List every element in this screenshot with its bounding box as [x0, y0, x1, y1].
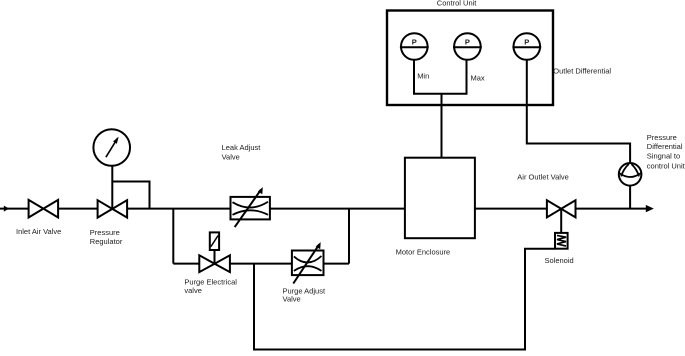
svg-text:Inlet Air Valve: Inlet Air Valve	[16, 227, 61, 236]
svg-text:Control Unit: Control Unit	[437, 0, 478, 7]
svg-text:Air Outlet Valve: Air Outlet Valve	[517, 173, 569, 182]
svg-text:Leak Adjust: Leak Adjust	[222, 143, 262, 152]
svg-text:Valve: Valve	[222, 152, 240, 161]
svg-text:Regulator: Regulator	[90, 237, 123, 246]
svg-text:Differential: Differential	[647, 142, 683, 151]
svg-text:P: P	[524, 38, 529, 47]
svg-text:Pressure: Pressure	[90, 228, 120, 237]
svg-text:Max: Max	[471, 73, 485, 82]
svg-text:Motor Enclosure: Motor Enclosure	[396, 248, 451, 257]
svg-text:Outlet Differential: Outlet Differential	[553, 67, 611, 76]
svg-text:P: P	[465, 38, 470, 47]
svg-text:Min: Min	[417, 71, 429, 80]
svg-text:control Unit: control Unit	[647, 162, 685, 171]
svg-text:Singnal to: Singnal to	[647, 151, 680, 160]
svg-text:P: P	[412, 38, 417, 47]
svg-text:Solenoid: Solenoid	[545, 256, 574, 265]
svg-text:valve: valve	[184, 286, 202, 295]
svg-text:Valve: Valve	[283, 295, 301, 304]
svg-text:Pressure: Pressure	[647, 133, 677, 142]
